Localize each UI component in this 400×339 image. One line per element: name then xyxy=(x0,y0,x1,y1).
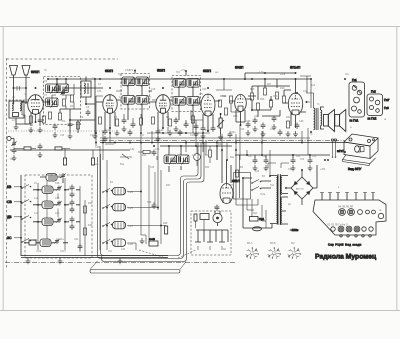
osc tuned circuit C5 xyxy=(46,84,59,94)
svg-text:С26: С26 xyxy=(254,115,259,118)
svg-text:С5: С5 xyxy=(44,80,48,83)
wires interstage xyxy=(236,73,295,122)
svg-text:экр: экр xyxy=(95,164,99,166)
tuner wires xyxy=(127,160,166,250)
svg-text:КВ: КВ xyxy=(7,185,12,189)
capacitor C10 xyxy=(53,124,58,131)
capacitor C15 xyxy=(131,122,136,129)
cap C46 xyxy=(152,203,157,210)
capacitor Cb4 xyxy=(78,244,83,251)
capacitor C13 xyxy=(122,118,127,125)
svg-text:С37: С37 xyxy=(68,188,73,191)
chassis dashed boundary left xyxy=(7,58,119,268)
svg-text:R2: R2 xyxy=(70,105,74,108)
bottom bracket loop xyxy=(90,270,180,274)
svg-text:6,3: 6,3 xyxy=(148,97,152,99)
svg-text:R12: R12 xyxy=(222,95,227,98)
svg-text:~220в: ~220в xyxy=(290,228,299,232)
svg-text:С45: С45 xyxy=(150,167,155,169)
svg-text:Тр4: Тр4 xyxy=(270,184,275,187)
record player unit ЭПУ box xyxy=(331,134,378,171)
switch contact tuner ДВ xyxy=(102,223,112,227)
svg-text:В1А: В1А xyxy=(247,241,253,245)
svg-text:В4а: В4а xyxy=(230,157,235,159)
resistor R9 xyxy=(168,119,171,126)
svg-text:С2: С2 xyxy=(30,124,34,127)
resistor R0 xyxy=(29,116,32,123)
antenna input coil L1 L2 xyxy=(5,100,45,124)
wires mid cluster xyxy=(105,144,210,166)
ground c13 xyxy=(122,126,127,132)
svg-text:4+40: 4+40 xyxy=(149,238,155,241)
svg-text:R17: R17 xyxy=(267,83,272,86)
capacitor C11 xyxy=(86,110,91,117)
capacitor C22 xyxy=(201,126,206,133)
svg-text:Зв1: Зв1 xyxy=(214,206,219,209)
svg-text:гн: гн xyxy=(24,94,27,96)
svg-text:L1: L1 xyxy=(12,96,15,99)
svg-text:С40: С40 xyxy=(55,212,60,215)
tuner coil L27 xyxy=(113,222,134,229)
svg-text:С30: С30 xyxy=(299,120,304,123)
panel sockets row1 xyxy=(338,205,384,219)
svg-text:L31: L31 xyxy=(108,251,113,253)
ground under V2 xyxy=(103,136,108,142)
oscillator dashed screen box xyxy=(44,77,81,125)
resistor Ro2 xyxy=(70,95,73,102)
resistor R15 xyxy=(250,93,253,100)
T1 circuit d xyxy=(136,96,149,106)
capacitor C18 xyxy=(156,129,161,136)
volume pot R13 xyxy=(217,114,224,134)
resistor R2 xyxy=(76,122,79,129)
svg-text:R19: R19 xyxy=(280,87,285,90)
junction circle mid xyxy=(194,154,201,161)
svg-text:С11а: С11а xyxy=(90,135,96,137)
ground b3 xyxy=(118,258,123,264)
svg-text:+250: +250 xyxy=(320,169,326,171)
value labels xyxy=(10,70,387,264)
tube V1 6И1П xyxy=(22,70,48,126)
svg-text:5В: 5В xyxy=(152,262,155,264)
T2 circuit a xyxy=(173,79,186,89)
svg-text:Гн2: Гн2 xyxy=(371,90,376,94)
svg-text:С11: С11 xyxy=(97,90,102,93)
svg-text:С43: С43 xyxy=(95,146,100,149)
resistor R6 xyxy=(115,119,118,126)
svg-text:R21: R21 xyxy=(286,116,291,119)
ground b2 xyxy=(58,258,63,264)
resistor R12 xyxy=(224,108,227,115)
resistor Ro1 xyxy=(62,99,65,106)
capacitor C27 xyxy=(261,123,266,130)
ground i4 xyxy=(246,130,251,136)
ground V3 xyxy=(156,136,161,142)
ground V6 xyxy=(293,131,298,137)
ground (input) xyxy=(14,124,19,130)
svg-text:Тр3: Тр3 xyxy=(311,84,316,87)
svg-text:В4: В4 xyxy=(240,166,244,169)
capacitor C56 xyxy=(264,158,269,165)
svg-text:Радиола Муромец: Радиола Муромец xyxy=(315,253,377,260)
ground V6b xyxy=(286,131,291,137)
wire v1 xyxy=(22,102,31,124)
svg-text:СВ: СВ xyxy=(7,200,12,204)
svg-text:L15: L15 xyxy=(33,239,38,242)
svg-text:С41a: С41a xyxy=(58,238,64,241)
svg-text:Д1: Д1 xyxy=(288,204,292,206)
heater bus + bypass caps xyxy=(100,137,310,139)
resistor R21 xyxy=(286,121,289,128)
svg-text:С7: С7 xyxy=(44,94,48,97)
svg-text:Л7: Л7 xyxy=(230,184,234,187)
svg-text:250в: 250в xyxy=(280,74,286,76)
svg-text:Л1 Л2 Л3 Гр Ан З: Л1 Л2 Л3 Гр Ан З xyxy=(327,223,348,227)
capacitor C19 xyxy=(174,118,179,125)
left rail xyxy=(20,175,22,256)
switch wafer В1Б xyxy=(268,241,281,259)
component right edge xyxy=(165,226,168,234)
svg-text:В1Б: В1Б xyxy=(270,241,276,245)
speaker Sp1 xyxy=(324,110,335,132)
capacitor C57 xyxy=(291,158,296,165)
panel sockets row3 xyxy=(340,235,371,237)
tuner coil L23 xyxy=(113,188,134,195)
svg-text:L15а: L15а xyxy=(36,251,42,253)
svg-text:R13: R13 xyxy=(233,115,238,118)
band coil group ЗС xyxy=(24,239,68,247)
svg-text:6П14П: 6П14П xyxy=(290,66,301,70)
svg-text:С12: С12 xyxy=(106,129,111,132)
switch contact КВ xyxy=(21,185,31,189)
resistor R11b xyxy=(229,96,232,103)
connector panel XS1 xyxy=(349,78,365,123)
svg-text:М1: М1 xyxy=(223,249,227,251)
svg-text:а: а xyxy=(338,187,340,189)
svg-text:Пр1: Пр1 xyxy=(253,212,258,215)
tube V4 detector xyxy=(196,69,220,131)
capacitor Cb1 xyxy=(70,192,75,199)
svg-text:С50: С50 xyxy=(288,168,293,171)
capacitor C29 xyxy=(246,122,251,129)
svg-text:6И1П: 6И1П xyxy=(31,70,40,74)
wires midlc xyxy=(138,152,157,160)
T1 circuit a xyxy=(122,77,135,87)
svg-text:С38: С38 xyxy=(55,197,60,200)
svg-text:С18: С18 xyxy=(159,129,164,132)
mains circuit xyxy=(234,150,299,232)
T1 circuit b xyxy=(136,77,149,87)
svg-text:R5: R5 xyxy=(114,116,118,119)
svg-text:6Н2П: 6Н2П xyxy=(235,66,244,70)
top B+ bus xyxy=(65,79,311,88)
chassis dash-dot mid line xyxy=(100,140,345,142)
svg-text:В1а: В1а xyxy=(120,164,125,166)
svg-text:R9: R9 xyxy=(166,116,170,119)
osc tuned circuit C7 xyxy=(46,98,59,108)
svg-text:АРУ: АРУ xyxy=(199,93,204,96)
svg-text:Тр4а: Тр4а xyxy=(260,194,266,196)
svg-text:С24: С24 xyxy=(202,88,207,91)
switch contact ДВ xyxy=(21,216,31,220)
power transformer T4 xyxy=(270,174,288,225)
ground v1b xyxy=(38,127,43,133)
oscillator coil L3 xyxy=(81,77,91,105)
wire tuner extra xyxy=(149,165,155,244)
AGC dotted line xyxy=(8,130,115,132)
upper-mid small tuned circuits xyxy=(164,155,177,165)
capacitor C58 xyxy=(308,158,313,165)
svg-text:R25: R25 xyxy=(88,224,93,227)
long vertical feed wires xyxy=(96,124,308,176)
ground t1 xyxy=(140,238,145,244)
vertical rails in block xyxy=(38,178,85,256)
resistor R4 xyxy=(42,116,45,123)
svg-text:С52: С52 xyxy=(312,155,317,158)
svg-text:R15: R15 xyxy=(250,88,255,91)
svg-text:Гр1: Гр1 xyxy=(345,73,349,76)
antenna W1 xyxy=(9,66,30,104)
svg-text:R23: R23 xyxy=(142,154,147,157)
dashed diagonal pointer xyxy=(139,250,196,258)
band switch left block dashed xyxy=(25,175,92,258)
svg-text:R1: R1 xyxy=(62,120,66,123)
svg-text:С47: С47 xyxy=(248,155,253,158)
T2 circuit c xyxy=(173,97,186,107)
svg-text:С10: С10 xyxy=(60,135,65,137)
ground c19 xyxy=(174,126,179,132)
svg-text:6К4П: 6К4П xyxy=(157,69,166,73)
rear panel outline xyxy=(313,193,386,236)
svg-text:С29: С29 xyxy=(270,129,275,131)
svg-text:R26: R26 xyxy=(163,222,168,225)
ground det xyxy=(194,131,199,137)
svg-text:Л4 Л5 Л6 ЛП: Л4 Л5 Л6 ЛП xyxy=(338,205,353,209)
svg-text:Л1: Л1 xyxy=(44,70,48,72)
svg-text:6К3П: 6К3П xyxy=(203,69,212,73)
svg-text:С17: С17 xyxy=(140,135,145,137)
svg-text:С8: С8 xyxy=(86,106,90,109)
svg-text:L29: L29 xyxy=(121,248,126,251)
resistor R18 xyxy=(269,100,272,107)
capacitor C12 xyxy=(103,129,108,136)
switch wafer В2 xyxy=(288,241,301,259)
svg-text:6К4П: 6К4П xyxy=(105,69,114,73)
capacitor Cb3 xyxy=(70,224,75,231)
tuning eye tube V7 xyxy=(220,160,240,204)
ground V4 xyxy=(201,133,206,139)
wires det xyxy=(191,79,240,124)
svg-text:С46: С46 xyxy=(147,201,152,204)
resistor R11 xyxy=(218,100,221,107)
capacitor eye xyxy=(215,205,220,212)
svg-text:дет: дет xyxy=(215,72,220,74)
svg-text:–1,5в: –1,5в xyxy=(258,72,264,74)
svg-text:С42: С42 xyxy=(130,148,135,151)
svg-text:L21: L21 xyxy=(205,154,210,157)
cap h1 xyxy=(128,130,133,137)
svg-text:R27: R27 xyxy=(166,184,171,187)
band coil group СВ xyxy=(33,200,80,209)
capacitor C55 xyxy=(253,158,258,165)
ground b1 xyxy=(26,258,31,264)
ground osc3 xyxy=(53,132,58,138)
svg-text:L27: L27 xyxy=(129,224,134,228)
svg-text:С9: С9 xyxy=(80,116,84,119)
tube V5 6Н2П xyxy=(229,66,252,126)
svg-text:мГн7: мГн7 xyxy=(337,149,344,153)
resistor eye xyxy=(235,170,238,177)
ground v1a xyxy=(29,127,34,133)
svg-text:Гн3: Гн3 xyxy=(384,106,389,110)
svg-text:L29: L29 xyxy=(129,242,134,246)
svg-text:R30: R30 xyxy=(205,167,210,169)
switch wafer В1А xyxy=(246,241,259,259)
svg-text:R18: R18 xyxy=(273,95,278,98)
svg-text:С51: С51 xyxy=(296,155,301,158)
resistor R17 xyxy=(263,88,266,95)
T1 circuit c xyxy=(122,96,135,106)
capacitor C44 xyxy=(152,150,157,157)
svg-text:R22: R22 xyxy=(218,143,223,146)
svg-text:L19: L19 xyxy=(192,154,197,157)
svg-text:Гн2': Гн2' xyxy=(384,98,390,102)
capacitor C26 xyxy=(253,118,258,125)
capacitor C30 xyxy=(295,123,300,130)
ground i2 xyxy=(261,131,266,137)
phono input connector xyxy=(7,136,95,165)
svg-text:L25: L25 xyxy=(129,206,134,210)
capacitor C28 xyxy=(272,116,277,123)
svg-text:L4: L4 xyxy=(58,78,61,81)
svg-text:гн Гн2: гн Гн2 xyxy=(368,117,377,121)
left low bus xyxy=(10,149,130,151)
svg-text:L11: L11 xyxy=(34,197,38,200)
ferrite tuner block xyxy=(100,146,168,250)
svg-text:Тр: Тр xyxy=(317,104,320,106)
filter capacitor row xyxy=(235,155,330,171)
svg-text:Спр РЦ4Б Вид сзади: Спр РЦ4Б Вид сзади xyxy=(328,243,362,247)
resistor mid xyxy=(208,150,211,157)
svg-text:L23: L23 xyxy=(129,190,134,194)
svg-text:ДВ: ДВ xyxy=(7,215,12,219)
chassis dash-dot line xyxy=(5,262,235,264)
bridge rectifier xyxy=(287,165,317,205)
ground i1 xyxy=(253,126,258,132)
speaker Sp2 xyxy=(335,110,346,132)
svg-text:С25: С25 xyxy=(246,120,251,123)
svg-text:т.в: т.в xyxy=(379,209,382,212)
cap h3 xyxy=(228,132,233,139)
svg-text:С44: С44 xyxy=(155,148,160,151)
switch contact tuner ЗС xyxy=(102,240,112,244)
output transformer T3 xyxy=(300,76,324,130)
svg-text:ш: ш xyxy=(350,127,352,129)
capacitor C20 xyxy=(184,122,189,129)
svg-text:С36: С36 xyxy=(55,182,60,185)
osc wires2 xyxy=(52,79,74,109)
svg-text:R14: R14 xyxy=(240,129,245,131)
T2 circuit d xyxy=(187,97,200,107)
resistor R7 xyxy=(139,118,142,125)
main horizontal divider xyxy=(100,142,345,144)
switch contact tuner СВ xyxy=(102,205,112,209)
IF transformer T1 (dashed box) xyxy=(121,74,150,110)
svg-text:R16: R16 xyxy=(260,98,265,101)
svg-text:С4: С4 xyxy=(98,84,102,86)
wires v2v3 xyxy=(96,91,157,133)
capacitor C3 xyxy=(38,118,43,125)
motor switch dashed box xyxy=(191,211,231,255)
T2 circuit b xyxy=(187,79,200,89)
resistor R16 xyxy=(256,103,259,110)
pickup head xyxy=(213,211,222,226)
resistor R19 xyxy=(275,92,278,99)
padder box xyxy=(149,241,158,246)
resistor R1 xyxy=(58,113,61,120)
svg-text:С21а: С21а xyxy=(190,135,196,137)
resistor R23b xyxy=(143,150,150,153)
switch contact tuner КВ xyxy=(102,189,112,193)
T2 wires xyxy=(179,71,193,124)
resistor R8 xyxy=(151,117,154,124)
component designator labels xyxy=(12,69,349,251)
trimmer C6 xyxy=(60,90,65,96)
resistor R10 xyxy=(191,116,194,123)
svg-text:Вид ЭПУ: Вид ЭПУ xyxy=(348,167,362,171)
capacitor C21 xyxy=(194,124,199,131)
band coil group top xyxy=(40,173,66,183)
svg-text:Тр1: Тр1 xyxy=(118,73,123,76)
capacitor C23 xyxy=(211,126,216,133)
svg-text:С41б: С41б xyxy=(60,251,66,253)
resistor Rb2 xyxy=(83,228,86,235)
svg-text:гн Гн1: гн Гн1 xyxy=(350,119,359,123)
svg-text:зв: зв xyxy=(384,119,387,121)
ground (osc2) xyxy=(93,133,98,139)
resistor R3 xyxy=(48,112,51,119)
svg-text:С32: С32 xyxy=(303,91,308,93)
tuner coil L25 xyxy=(113,204,134,211)
svg-text:В1: В1 xyxy=(110,181,114,184)
tube V2 6К4П xyxy=(96,69,121,131)
svg-text:С25а: С25а xyxy=(230,132,236,134)
resistor R20 xyxy=(282,96,285,103)
connector panel XS2 xyxy=(367,90,390,121)
svg-text:Гн1: Гн1 xyxy=(352,78,357,82)
T1 wires xyxy=(121,70,152,124)
svg-text:С49: С49 xyxy=(255,171,260,173)
svg-text:L9: L9 xyxy=(34,182,37,185)
svg-text:С53: С53 xyxy=(300,159,305,161)
bottom bus double line xyxy=(21,256,168,258)
svg-text:Гр: Гр xyxy=(310,134,313,136)
wires v3v4 xyxy=(147,114,210,133)
svg-text:В2: В2 xyxy=(291,241,295,245)
svg-text:С16: С16 xyxy=(151,88,156,91)
tube V3 6К4П xyxy=(149,69,172,132)
panel sockets row2 xyxy=(327,223,373,232)
cap h2 xyxy=(178,130,183,137)
capacitor C9 xyxy=(68,122,73,129)
switch contact ЗС xyxy=(21,239,31,243)
svg-text:В3: В3 xyxy=(262,175,266,178)
switch contact СВ xyxy=(21,200,31,204)
svg-text:R24: R24 xyxy=(88,202,93,205)
svg-text:–27в: –27в xyxy=(128,70,134,72)
nested bus loop xyxy=(98,143,205,262)
band coil group ДВ xyxy=(33,217,80,226)
